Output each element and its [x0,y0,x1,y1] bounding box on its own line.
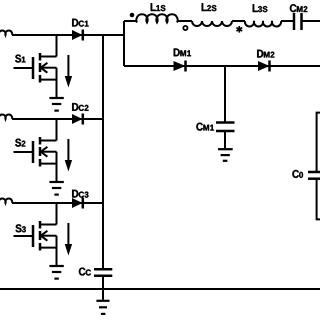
transistor S3 body arrow and source [40,231,57,265]
wire: output branch bottom stub [317,179,320,220]
current arrow row1 [65,55,72,88]
current arrow row3 [65,223,72,256]
transistor S2 drain lead [40,119,57,141]
diode DM2 [258,61,270,72]
label S2 [15,139,25,147]
transistor S1 drain lead [40,35,57,57]
label DC3 [72,190,88,198]
label L2S [202,3,217,11]
label DC1 [72,19,88,27]
label DM2 [257,50,274,58]
wire: row2 horizontal [12,118,103,120]
wire: CM1 stem from DM rail [224,66,226,123]
label L3S [253,4,268,12]
wire: top rail segment 4 [281,20,294,22]
wire: bottom rail [0,288,320,290]
ground under S1 [49,98,63,111]
ground under S2 [49,182,63,195]
winding polarity asterisk [236,26,242,33]
transistor S1 body arrow and source [40,63,57,97]
wire: collector bus vertical [102,35,104,269]
wire: top rail segment 3 [232,20,245,22]
label CC [79,268,91,276]
label S3 [16,224,26,232]
transistor S2 channel and gate [14,137,41,167]
label L1S [151,3,166,11]
wire: link vertical between top rail and DM rail [123,21,125,66]
winding polarity dot [130,13,135,18]
wire: CM1 to ground [224,131,226,148]
winding polarity circle [183,26,187,30]
inductor L1S [136,14,177,22]
label C0 [292,170,303,178]
transistor S1 channel and gate [14,53,41,83]
wire: top rail segment 5 [302,20,320,22]
capacitor C0 [308,172,320,179]
label CM1 [196,123,214,131]
label S1 [15,55,25,63]
current arrow row2 [65,139,72,172]
wire: bus to bottom rail [102,276,104,289]
ground under CM1 [218,149,233,161]
wire: output branch top stub [317,113,320,172]
inductor L2S [192,21,232,26]
inductor L3S [245,21,281,26]
diode DC2 [72,114,83,125]
capacitor CC [94,269,112,276]
label CM2 [290,4,308,12]
transistor S3 channel and gate [14,221,41,251]
label DC2 [72,103,88,111]
diode DC3 [72,198,83,209]
label DM1 [174,49,191,57]
wire: row1 horizontal [12,34,124,36]
capacitor CM1 [216,123,235,132]
wire: row1 input coil stub [0,31,12,35]
wire: top rail segment 2 [177,20,192,22]
ground below bottom rail [96,289,109,314]
capacitor CM2 [294,13,302,30]
wire: row2 input coil stub [0,115,12,119]
ground under S3 [49,266,63,279]
wire: top rail segment 1 [124,20,137,22]
wire: row3 input coil stub [0,199,12,203]
wire: DM rail [124,65,320,67]
diode DC1 [72,30,83,41]
wire: row3 horizontal [12,202,103,204]
diode DM1 [174,61,186,72]
transistor S3 drain lead [40,203,57,225]
transistor S2 body arrow and source [40,147,57,181]
